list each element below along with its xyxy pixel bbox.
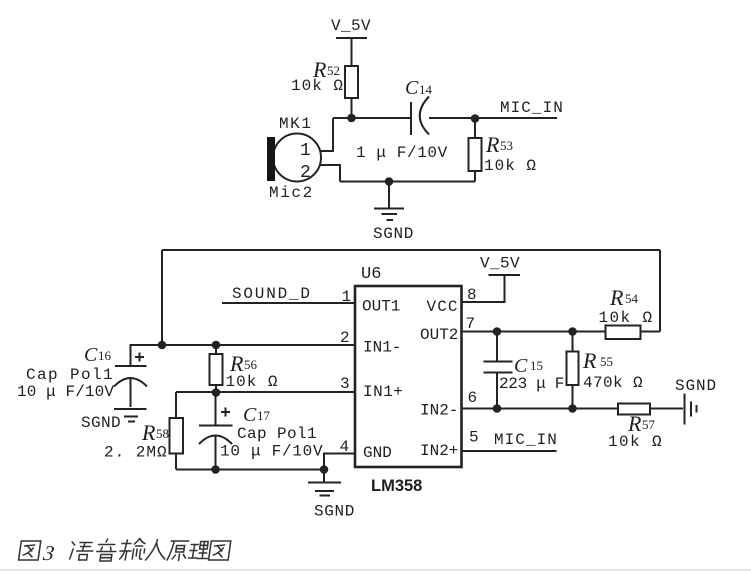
svg-text:16: 16 bbox=[98, 348, 112, 363]
svg-text:C: C bbox=[405, 77, 419, 99]
wire mic pin2 bbox=[320, 165, 340, 182]
svg-text:52: 52 bbox=[327, 63, 340, 78]
resistor R55 bbox=[567, 332, 644, 409]
svg-text:R: R bbox=[582, 348, 597, 373]
resistor R57 bbox=[608, 404, 683, 452]
svg-text:2: 2 bbox=[300, 163, 311, 183]
junction dot C17 bottom bbox=[211, 465, 220, 474]
svg-text:10k Ω: 10k Ω bbox=[608, 433, 663, 451]
wire mic pin2 to R53 bottom bbox=[340, 181, 475, 183]
svg-text:Mic2: Mic2 bbox=[269, 184, 314, 202]
svg-text:OUT1: OUT1 bbox=[362, 298, 400, 316]
svg-text:IN1-: IN1- bbox=[363, 339, 401, 357]
junction dot R53 top bbox=[471, 114, 480, 123]
ground SGND (right) bbox=[675, 377, 717, 425]
svg-text:56: 56 bbox=[244, 357, 258, 372]
wire V_5V bar to R52 bbox=[351, 38, 353, 66]
op-amp U6 LM358 body bbox=[355, 265, 462, 495]
svg-text:54: 54 bbox=[625, 291, 639, 306]
node junction R52/mic/C14 bbox=[347, 114, 356, 123]
caption char 输 bbox=[119, 539, 147, 561]
ground SGND (bottom) bbox=[308, 483, 355, 521]
ground SGND (top section) bbox=[373, 209, 414, 244]
svg-text:10k Ω: 10k Ω bbox=[226, 373, 279, 391]
wire R52 to node bbox=[351, 98, 353, 118]
junction dot ground tap (top section) bbox=[385, 177, 394, 186]
caption char 语 bbox=[70, 542, 95, 560]
svg-text:10 μ F/10V: 10 μ F/10V bbox=[17, 383, 114, 401]
svg-text:Cap Pol1: Cap Pol1 bbox=[237, 425, 317, 443]
caption: 图3 语音输入原理图 bbox=[18, 539, 231, 565]
svg-text:IN2-: IN2- bbox=[420, 402, 458, 420]
wire pin4 GND bbox=[324, 454, 355, 470]
capacitor C14 bbox=[356, 77, 448, 162]
svg-text:10k Ω: 10k Ω bbox=[484, 157, 537, 175]
svg-text:C: C bbox=[243, 404, 257, 426]
svg-text:10 μ F/10V: 10 μ F/10V bbox=[220, 443, 323, 461]
svg-text:V_5V: V_5V bbox=[331, 17, 371, 35]
svg-text:1: 1 bbox=[300, 141, 311, 161]
svg-text:R: R bbox=[609, 285, 624, 310]
wire junction to ground bbox=[388, 182, 390, 208]
svg-text:U6: U6 bbox=[361, 265, 381, 284]
svg-text:SGND: SGND bbox=[314, 503, 355, 521]
capacitor C17 bbox=[199, 393, 323, 470]
resistor R53 bbox=[469, 119, 538, 182]
caption char 图 (2nd) bbox=[209, 541, 231, 560]
svg-text:SOUND_D: SOUND_D bbox=[232, 285, 312, 303]
power V_5V (top) bbox=[331, 17, 371, 38]
svg-text:10k Ω: 10k Ω bbox=[599, 309, 654, 327]
svg-text:C: C bbox=[84, 344, 98, 366]
capacitor C15 bbox=[484, 332, 565, 409]
svg-text:57: 57 bbox=[642, 417, 656, 432]
svg-text:55: 55 bbox=[600, 354, 613, 369]
svg-text:MK1: MK1 bbox=[279, 115, 312, 133]
svg-text:MIC_IN: MIC_IN bbox=[494, 431, 558, 449]
junction dot R55 bottom bbox=[568, 404, 577, 413]
caption char 入 bbox=[146, 540, 168, 561]
svg-text:5: 5 bbox=[469, 429, 479, 447]
svg-text:V_5V: V_5V bbox=[480, 255, 520, 273]
svg-text:Cap Pol1: Cap Pol1 bbox=[26, 366, 114, 384]
wire node to C14 bbox=[333, 117, 411, 119]
svg-text:17: 17 bbox=[257, 408, 271, 423]
resistor R58 bbox=[104, 418, 183, 470]
svg-text:R: R bbox=[485, 132, 500, 157]
wire mic pin1 bbox=[320, 118, 333, 151]
svg-text:SGND: SGND bbox=[675, 377, 717, 395]
faint page rule bbox=[0, 569, 751, 571]
svg-text:6: 6 bbox=[468, 389, 478, 407]
junction dot C15 top bbox=[493, 327, 502, 336]
svg-text:15: 15 bbox=[530, 358, 543, 373]
junction dot feedback/pin2 bbox=[158, 341, 167, 350]
svg-text:C: C bbox=[514, 355, 528, 377]
svg-text:SGND: SGND bbox=[373, 225, 414, 243]
svg-text:223 μ F: 223 μ F bbox=[499, 375, 564, 393]
svg-text:14: 14 bbox=[419, 82, 433, 97]
svg-text:IN2+: IN2+ bbox=[420, 442, 458, 460]
svg-text:3: 3 bbox=[340, 375, 350, 393]
svg-text:LM358: LM358 bbox=[371, 477, 422, 495]
ground SGND (C16) bbox=[81, 409, 147, 432]
svg-text:3: 3 bbox=[41, 541, 56, 565]
wire pin6 IN2- bbox=[462, 408, 619, 410]
wire pin4 to ground bbox=[323, 470, 325, 482]
feedback wire (right drop) bbox=[659, 250, 661, 332]
svg-text:58: 58 bbox=[156, 426, 169, 441]
feedback wire (top horizontal) bbox=[162, 249, 660, 251]
feedback wire (left riser) bbox=[161, 250, 163, 345]
wire left branch down to R58 bbox=[175, 392, 177, 418]
caption char 图 (1st) bbox=[19, 541, 41, 560]
svg-text:7: 7 bbox=[466, 315, 476, 333]
svg-text:OUT2: OUT2 bbox=[420, 326, 458, 344]
caption char 音 bbox=[95, 539, 117, 561]
wire pin5 IN2+ bbox=[462, 450, 557, 452]
resistor R52 bbox=[291, 57, 358, 98]
junction dot R56 top bbox=[212, 341, 221, 350]
junction dot C15 bottom bbox=[493, 404, 502, 413]
resistor R54 bbox=[599, 285, 661, 339]
wire pin3 IN1+ bbox=[176, 391, 355, 393]
svg-text:GND: GND bbox=[363, 444, 392, 462]
svg-text:2. 2MΩ: 2. 2MΩ bbox=[104, 444, 168, 462]
svg-text:53: 53 bbox=[500, 138, 513, 153]
microphone MK1 bbox=[267, 115, 321, 202]
svg-text:1 μ F/10V: 1 μ F/10V bbox=[356, 144, 448, 162]
junction dot pin4 corner bbox=[320, 465, 329, 474]
svg-text:10k Ω: 10k Ω bbox=[291, 77, 344, 95]
wire C14 to MIC_IN bbox=[429, 117, 557, 119]
capacitor C16 bbox=[17, 344, 147, 407]
caption char 原 bbox=[167, 541, 189, 561]
bottom wire R58/C17 to pin4 bbox=[176, 469, 324, 471]
svg-text:VCC: VCC bbox=[427, 298, 459, 316]
svg-text:1: 1 bbox=[342, 288, 352, 306]
junction dot R55 top bbox=[568, 327, 577, 336]
resistor R56 bbox=[210, 345, 279, 393]
svg-text:R: R bbox=[141, 420, 156, 445]
svg-text:470k Ω: 470k Ω bbox=[583, 374, 643, 392]
power V_5V (right) bbox=[480, 255, 520, 276]
svg-text:MIC_IN: MIC_IN bbox=[500, 99, 564, 117]
caption char 理 bbox=[188, 542, 209, 559]
wire pin7 OUT2 bbox=[462, 331, 606, 333]
wire pin2 IN1- bbox=[130, 344, 356, 346]
junction dot R56 bottom / C17 top bbox=[212, 388, 221, 397]
svg-text:IN1+: IN1+ bbox=[363, 383, 403, 401]
svg-text:SGND: SGND bbox=[81, 414, 121, 432]
wire pin1 OUT1 bbox=[222, 302, 355, 304]
wire V_5V to pin8 bbox=[462, 275, 505, 302]
